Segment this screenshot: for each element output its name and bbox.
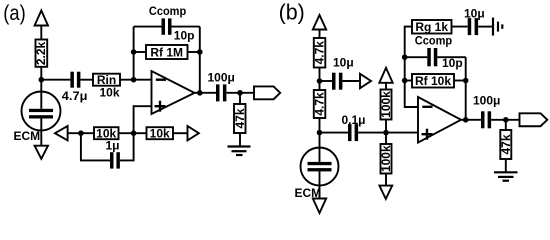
resistor Rf 1M (146, 45, 188, 59)
ECM microphone (b) (301, 148, 339, 199)
svg-text:Ccomp: Ccomp (149, 4, 186, 18)
wire (478, 26, 492, 28)
power V+ arrow (b) (313, 15, 326, 30)
wire (452, 26, 468, 28)
node out-47k (a) (237, 90, 243, 96)
svg-text:Rf 10k: Rf 10k (415, 74, 451, 88)
resistor 4.7k lower (313, 90, 327, 118)
svg-text:10p: 10p (174, 28, 195, 42)
wire to op-amp plus (358, 132, 418, 134)
wire (385, 83, 387, 90)
svg-text:ECM: ECM (14, 129, 41, 143)
resistor 47k (a) (233, 104, 247, 133)
capacitor 4.7u (70, 72, 80, 88)
output tag (b) (520, 113, 548, 126)
svg-text:47k: 47k (499, 134, 513, 154)
svg-text:1μ: 1μ (106, 139, 120, 153)
wire Ccomp row (b) (405, 56, 428, 58)
svg-text:(b): (b) (279, 0, 305, 25)
wire (505, 159, 507, 172)
svg-text:4.7k: 4.7k (313, 41, 327, 65)
svg-text:100k: 100k (379, 145, 393, 172)
wire (80, 79, 93, 81)
wire (120, 133, 134, 160)
V- down arrow mid column (b) (379, 186, 392, 199)
resistor Rf 10k (412, 74, 454, 88)
ground (b) (494, 172, 518, 180)
wire (385, 120, 387, 145)
wire (319, 30, 321, 39)
node C (317, 78, 323, 84)
node A (39, 77, 45, 83)
wire feedback right rail (b) (465, 57, 467, 120)
wire (319, 118, 321, 148)
svg-text:100k: 100k (379, 91, 393, 118)
wire (40, 26, 42, 40)
node output (b) (463, 117, 469, 123)
output tag (a) (254, 86, 280, 99)
capacitor Ccomp 10p (a) (162, 18, 172, 34)
wire (491, 119, 519, 121)
node D (383, 130, 389, 136)
wire (437, 56, 465, 58)
svg-text:(a): (a) (3, 2, 25, 25)
power V+ arrow (a) (35, 11, 48, 26)
wire (239, 93, 241, 104)
svg-text:100μ: 100μ (208, 71, 235, 85)
resistor 100k lower (379, 144, 393, 174)
capacitor 100u (a) (216, 84, 226, 101)
wire (505, 120, 507, 130)
svg-text:Ccomp: Ccomp (415, 34, 452, 48)
ground (a) (228, 147, 251, 156)
wire (40, 67, 42, 80)
op-amp U2 (b) (418, 97, 461, 143)
wire output (195, 92, 217, 94)
node rail-Rf right (b) (463, 78, 469, 84)
svg-text:47k: 47k (233, 108, 247, 128)
right arrow tag (a) (188, 126, 199, 140)
node bottom-left (a) (78, 130, 84, 136)
svg-text:4.7μ: 4.7μ (62, 89, 88, 103)
wire (188, 51, 200, 53)
V- down arrow below ECM (a) (35, 146, 48, 159)
svg-text:10k: 10k (150, 127, 170, 141)
wire (405, 80, 412, 82)
resistor 10k bottom-left (94, 127, 119, 141)
wire (173, 132, 188, 134)
capacitor 1u (110, 152, 120, 168)
capacitor 10u mid (b) (332, 73, 342, 90)
node rail-Rf right (197, 49, 203, 55)
capacitor Ccomp 10p (b) (427, 48, 437, 66)
resistor Rin 10k (93, 73, 120, 87)
wire (319, 68, 321, 91)
resistor 10k bottom-right (147, 127, 174, 141)
node E (317, 130, 323, 136)
resistor Rg 1k (412, 20, 452, 34)
svg-text:10μ: 10μ (464, 7, 485, 21)
capacitor 100u (b) (481, 111, 491, 128)
resistor 2.2k (34, 40, 48, 67)
wire (134, 51, 146, 53)
wire output (b) (461, 119, 481, 121)
wire to op-amp minus (120, 79, 152, 81)
svg-text:4.7k: 4.7k (313, 92, 327, 116)
svg-text:Rg 1k: Rg 1k (415, 20, 448, 34)
ground rotated (b top) (493, 18, 502, 36)
wire (239, 133, 241, 147)
capacitor 10u top (b) (468, 18, 478, 35)
node out-47k (b) (503, 117, 509, 123)
wire feedback left rail (133, 27, 135, 80)
node rail-Ccomp (b) (402, 54, 408, 60)
op-amp U1 (a) (152, 71, 195, 114)
wire (320, 132, 349, 134)
wire (172, 26, 200, 28)
node output (a) (197, 90, 203, 96)
wire (385, 174, 387, 186)
node B (131, 77, 137, 83)
node rail-Rf left (131, 49, 137, 55)
ECM microphone (a) (22, 80, 61, 146)
wire (454, 80, 466, 82)
wire (41, 79, 70, 81)
svg-text:10μ: 10μ (333, 56, 354, 70)
wire 1u loop (81, 133, 110, 160)
right arrow tag (b bias) (360, 74, 371, 88)
svg-text:100μ: 100μ (473, 94, 500, 108)
wire (134, 26, 162, 28)
wire feedback right rail (199, 27, 201, 93)
resistor 100k upper (379, 90, 393, 120)
svg-text:Rf 1M: Rf 1M (150, 45, 183, 59)
resistor 47k (b) (499, 130, 513, 159)
wire (226, 92, 254, 94)
V- down arrow below ECM (b) (313, 199, 326, 214)
resistor 4.7k upper (313, 38, 327, 68)
node bottom-mid (a) (131, 130, 137, 136)
wire (119, 132, 147, 134)
wire op-amp plus input (134, 106, 152, 133)
wire feedback left rail (b) (405, 27, 418, 107)
input left arrow (a) (55, 126, 68, 140)
capacitor 0.1u (348, 124, 358, 141)
svg-text:2.2k: 2.2k (34, 41, 48, 65)
V+ up arrow mid column (b) (379, 68, 392, 83)
svg-text:0.1μ: 0.1μ (342, 113, 366, 127)
node rail-Rf left (b) (402, 78, 408, 84)
wire (342, 80, 360, 82)
wire (320, 80, 333, 82)
wire (68, 132, 94, 134)
svg-text:10k: 10k (100, 86, 120, 100)
